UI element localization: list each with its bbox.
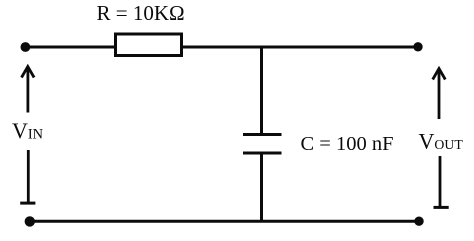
node: input bottom node (dot) bbox=[25, 216, 35, 226]
wire: top-left segment (input node to resistor) bbox=[25, 46, 116, 49]
wire: vertical drop from top wire to capacitor bbox=[260, 46, 263, 134]
capacitor C1 top plate bbox=[243, 133, 282, 136]
node: output bottom node (dot) bbox=[414, 217, 423, 226]
Vin annotation arrow tail bar bbox=[20, 202, 35, 205]
Vin annotation arrow head bbox=[22, 67, 35, 78]
wire: top-right segment (resistor to output node) bbox=[183, 46, 418, 49]
node: input top node (dot) bbox=[21, 42, 31, 52]
wire: bottom rail bbox=[29, 220, 419, 223]
Vout annotation arrow head bbox=[433, 69, 446, 80]
svg-text:C = 100 nF: C = 100 nF bbox=[301, 133, 394, 155]
node: output top node (dot) bbox=[413, 42, 422, 51]
Vout annotation arrow upper shaft bbox=[438, 69, 441, 120]
capacitor C1 bottom plate bbox=[243, 152, 282, 155]
Vin annotation arrow upper shaft bbox=[26, 67, 29, 113]
Vout annotation arrow lower shaft bbox=[439, 156, 442, 207]
Vout annotation arrow tail bar bbox=[434, 206, 449, 209]
svg-text:R = 10KΩ: R = 10KΩ bbox=[97, 1, 185, 25]
Vin annotation arrow lower shaft bbox=[27, 150, 30, 203]
wire: capacitor to bottom rail bbox=[260, 153, 263, 222]
resistor R = 10KΩ (box symbol) bbox=[116, 34, 182, 56]
